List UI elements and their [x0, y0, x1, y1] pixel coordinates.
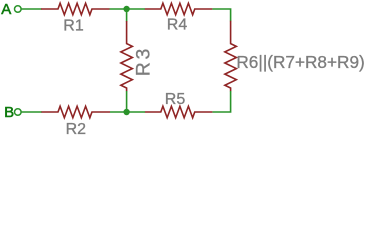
- wire R1 to R4: [110, 8, 146, 10]
- wire R2 to R5: [110, 111, 145, 113]
- wire R4 to top-right corner: [212, 9, 230, 21]
- svg-text:R1: R1: [63, 18, 84, 35]
- wire bottom-right corner to R5: [212, 91, 230, 112]
- junction node D: [123, 109, 129, 115]
- resistor R4: [145, 3, 213, 15]
- wire B to R2: [22, 111, 42, 113]
- junction node C: [123, 6, 129, 12]
- svg-text:B: B: [4, 104, 14, 121]
- wire R3 to junction D: [126, 91, 128, 112]
- svg-text:R5: R5: [165, 91, 186, 108]
- wire junction C to R3: [126, 9, 128, 22]
- svg-text:R2: R2: [66, 121, 87, 138]
- wire A to R1: [22, 8, 42, 10]
- svg-text:R6||(R7+R8+R9): R6||(R7+R8+R9): [236, 52, 364, 72]
- svg-text:R4: R4: [167, 17, 188, 34]
- resistor R6: [225, 21, 237, 91]
- svg-text:R3: R3: [132, 46, 154, 76]
- resistor R3: [121, 21, 133, 91]
- terminal A: [14, 6, 21, 13]
- resistor R5: [145, 106, 213, 118]
- resistor R1: [41, 3, 110, 15]
- svg-text:A: A: [1, 1, 11, 18]
- terminal B: [14, 109, 21, 116]
- resistor R2: [41, 106, 110, 118]
